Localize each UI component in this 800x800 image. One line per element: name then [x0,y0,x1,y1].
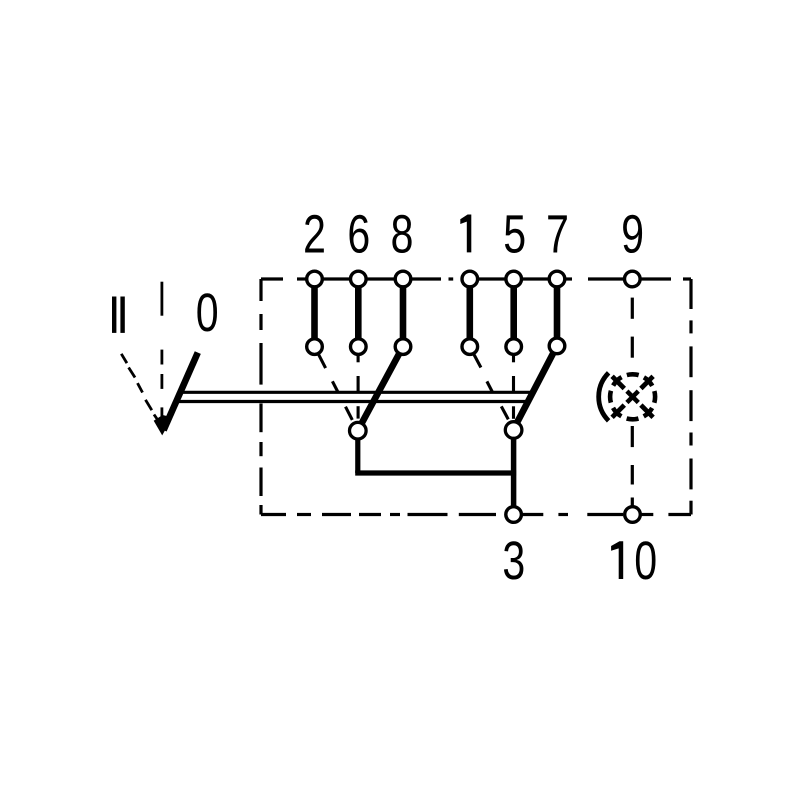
wire: stem terminal 7 [554,279,561,347]
fixed contact circle 5' [506,339,522,355]
wire: common link horizontal [355,470,516,475]
terminal 3 circle [506,507,522,523]
terminal 6 circle [351,271,367,287]
lamp L1: dashed circle [610,374,655,419]
terminal 1 circle [462,271,478,287]
label terminal 2 [305,215,324,253]
label terminal 8 [392,215,411,253]
node: position II dashed indicator line [121,354,159,422]
wire: dashed lamp feed terminal 9 to terminal 10 [631,298,634,506]
node: position I dashed indicator line [160,282,163,420]
open throw dashes: contact 6 to left pivot [357,355,360,418]
lamp L1: centre cross [627,391,638,402]
wire: right pivot down through link to terminal 3 [511,432,517,515]
contact bar: fixed contact 7 to right pole pivot (closed) [514,346,557,429]
contact bar: fixed contact 8 to left pole pivot (closed) [358,347,403,431]
housing border: top edge dash-dot [261,277,691,280]
switch lever arm [164,353,198,431]
label position 0 [197,293,217,331]
wire: stem terminal 6 [355,279,362,347]
label terminal 10 [611,541,623,579]
fixed contact circle 1' [462,339,478,355]
wire: left pivot down to common link [355,433,360,473]
fixed contact circle 6' [351,339,367,355]
fixed contact circle 8' [395,339,411,355]
label terminal 1 [460,215,471,253]
open throw dashes: contact 2 to left pivot [319,354,353,420]
terminal 2 circle [307,271,323,287]
fixed contact circle 2' [307,339,323,355]
terminal 7 circle [549,271,565,287]
lamp L1: radial rays [612,376,653,417]
wire: stem terminal 8 [400,279,407,347]
wire: stem terminal 1 [466,279,473,347]
wire: stem terminal 5 [510,279,517,347]
label terminal 9 [623,215,642,253]
label terminal 3 [504,541,523,579]
switch lever arrowhead [154,415,173,435]
right pole pivot circle [505,422,522,439]
lamp L1: left parenthesis arc [599,373,609,421]
left pole pivot circle [350,422,367,439]
open throw dashes: contact 5 to right pivot [512,355,515,419]
wire: actuator bus top rail [179,391,532,394]
housing border: left edge dash-dot [259,279,262,515]
label terminal 7 [548,215,567,252]
wire: actuator bus bottom rail [176,400,528,403]
wire: stem terminal 2 [311,279,318,347]
label terminal 6 [349,215,368,253]
fixed contact circle 7' [549,338,565,354]
terminal 8 circle [395,271,411,287]
terminal 9 circle [625,271,641,287]
label terminal 5 [505,215,524,253]
terminal 5 circle [506,271,522,287]
open throw dashes: contact 1 to right pivot [474,354,509,420]
terminal 10 circle [625,507,641,523]
housing border: right edge dash-dot [689,279,692,515]
label position II [112,297,125,333]
housing border: bottom edge dash-dot [261,513,691,516]
